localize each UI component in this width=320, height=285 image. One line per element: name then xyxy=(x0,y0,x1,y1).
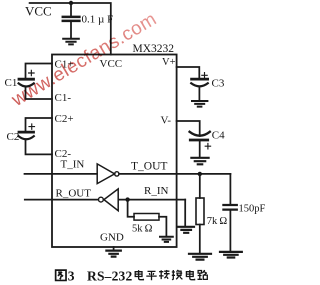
ground for 0.1uF xyxy=(63,39,79,45)
wire V+ stub xyxy=(177,67,200,78)
svg-text:C4: C4 xyxy=(212,130,225,142)
wire C4 to ground xyxy=(199,141,201,156)
capacitor C2 plates xyxy=(19,131,34,134)
wire 5k left lead xyxy=(128,200,134,217)
wire R_IN xyxy=(118,199,185,201)
svg-text:150pF: 150pF xyxy=(239,204,266,215)
capacitor C3 plates xyxy=(192,78,208,81)
svg-text:T_IN: T_IN xyxy=(61,159,85,171)
junction dot VCC/0.1uF xyxy=(69,1,73,5)
wire C1+ stub xyxy=(26,64,53,78)
wire R_OUT xyxy=(25,199,98,201)
svg-text:C2: C2 xyxy=(7,131,20,143)
svg-text:5k Ω: 5k Ω xyxy=(132,224,153,235)
junction dot R_IN/5k xyxy=(125,197,129,201)
svg-text:C1-: C1- xyxy=(55,92,72,104)
svg-text:T_OUT: T_OUT xyxy=(131,160,167,172)
ground for R_IN xyxy=(178,227,194,233)
capacitor 150pF plates xyxy=(223,205,236,210)
op-amp T buffer triangle xyxy=(97,164,114,184)
svg-text:V-: V- xyxy=(161,115,172,127)
wire V- stub xyxy=(177,121,200,136)
svg-text:RS–232: RS–232 xyxy=(87,269,133,284)
capacitor 0.1uF plates xyxy=(63,17,80,21)
svg-text:V+: V+ xyxy=(162,57,176,68)
ground for GND pin xyxy=(106,251,120,257)
wire 7k to ground xyxy=(199,225,201,254)
wire 150pF to ground xyxy=(229,211,231,252)
caption char 换 xyxy=(172,270,183,280)
svg-text:C3: C3 xyxy=(212,78,225,90)
caption char 转 xyxy=(159,270,170,279)
svg-text:C2+: C2+ xyxy=(55,113,74,125)
wire 0.1uF to ground xyxy=(70,22,72,38)
plus sign C3 xyxy=(202,73,207,78)
wire 5k right lead xyxy=(159,217,166,237)
wire T_OUT xyxy=(119,173,230,175)
svg-text:GND: GND xyxy=(100,232,124,244)
resistor R2 5k body xyxy=(134,214,159,221)
svg-text:R_IN: R_IN xyxy=(144,185,169,197)
svg-text:R_OUT: R_OUT xyxy=(56,188,92,200)
capacitor C1 plates xyxy=(19,78,34,81)
plus sign C1 xyxy=(29,70,34,75)
caption char 平 xyxy=(146,271,156,280)
wire R_IN to ground xyxy=(184,200,186,226)
svg-text:VCC: VCC xyxy=(25,4,52,19)
ground for 7k xyxy=(189,254,211,260)
wire C2+ stub xyxy=(26,118,53,131)
node VCC rail xyxy=(30,3,111,55)
wire GND pin stub xyxy=(113,247,115,250)
junction dot T_OUT node xyxy=(198,172,202,176)
resistor R1 7k body xyxy=(196,198,204,225)
caption char 电 (second) xyxy=(186,270,194,280)
svg-text:MX3232: MX3232 xyxy=(133,43,175,55)
svg-text:3: 3 xyxy=(68,269,75,284)
svg-text:0.1 µ F: 0.1 µ F xyxy=(82,14,114,26)
op-amp R inverter bubble xyxy=(99,197,104,202)
plus sign C2 xyxy=(29,124,35,129)
wire T_IN xyxy=(25,173,98,175)
wire 150pF top lead xyxy=(229,174,231,204)
wire C3 to ground xyxy=(198,87,200,100)
ground for 150pF xyxy=(220,252,242,258)
ground for 5k xyxy=(160,237,173,242)
svg-text:C1: C1 xyxy=(5,77,18,89)
caption char 电 xyxy=(135,270,143,280)
wire 0.1uF lead xyxy=(70,3,72,16)
wire C1- stub xyxy=(26,88,53,100)
op-amp T buffer bubble xyxy=(115,172,119,176)
op-amp U1 IC box MX3232 xyxy=(52,55,177,248)
wire C2- stub xyxy=(26,140,53,154)
ground for C4 xyxy=(191,158,208,165)
caption 图3 RS-232 level converter circuit xyxy=(56,269,208,284)
svg-text:7k Ω: 7k Ω xyxy=(207,216,228,227)
wire 7k top lead xyxy=(199,174,201,198)
caption char 路 xyxy=(198,270,208,279)
op-amp R inverter triangle xyxy=(104,189,118,211)
caption char 图 xyxy=(56,270,66,280)
ground for C3 xyxy=(192,101,207,107)
plus sign C4 xyxy=(205,144,210,149)
capacitor C4 plates xyxy=(190,132,210,136)
